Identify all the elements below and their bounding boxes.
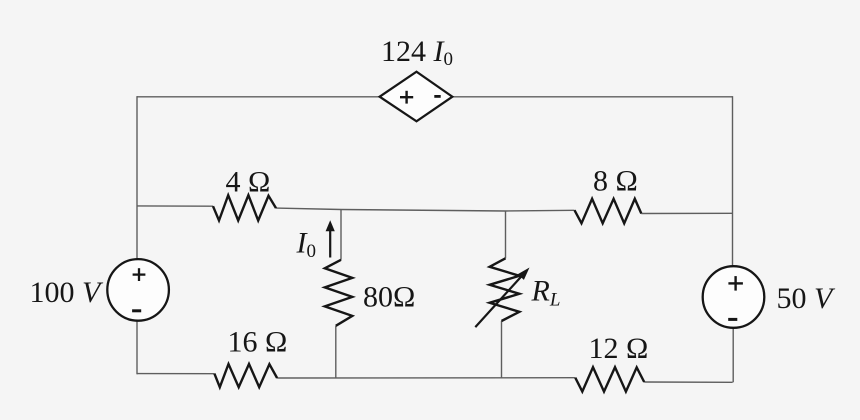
svg-text:4 Ω: 4 Ω [226,165,271,198]
svg-text:16 Ω: 16 Ω [228,326,288,359]
svg-text:124 I0: 124 I0 [381,35,453,70]
svg-text:80Ω: 80Ω [363,280,415,313]
svg-text:100 V: 100 V [30,276,105,309]
svg-text:8 Ω: 8 Ω [593,164,638,197]
svg-text:50 V: 50 V [777,282,837,315]
svg-text:12 Ω: 12 Ω [589,332,649,365]
